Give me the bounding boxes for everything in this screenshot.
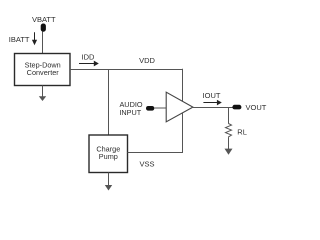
svg-text:VSS: VSS [139, 159, 154, 168]
svg-text:VBATT: VBATT [32, 15, 56, 24]
label charge pump [96, 145, 120, 162]
arrow IOUT current [203, 100, 221, 106]
svg-text:IBATT: IBATT [9, 35, 30, 44]
ground step-down converter [39, 86, 46, 102]
label step-down converter [25, 60, 61, 77]
wire audio input to amplifier [154, 107, 166, 109]
node VOUT terminal [232, 105, 241, 110]
node VBATT terminal [41, 24, 46, 32]
ground charge pump [105, 173, 112, 191]
wire VDD to charge pump [108, 70, 110, 136]
wire VDD down to amplifier [182, 69, 184, 102]
wire VSS up to amplifier [182, 113, 184, 153]
block step-down converter U1 [15, 54, 71, 86]
svg-text:RL: RL [237, 127, 247, 136]
svg-text:VDD: VDD [139, 56, 155, 65]
wire amplifier output [193, 107, 233, 109]
ground RL [225, 137, 233, 154]
label AUDIO INPUT [119, 100, 143, 117]
wire VSS horizontal [128, 152, 183, 154]
arrow IBATT current [32, 32, 37, 45]
node audio input terminal [146, 106, 154, 111]
wire VDD horizontal rail [70, 69, 183, 71]
op-amp amplifier U3 [166, 92, 193, 122]
svg-text:INPUT: INPUT [119, 108, 141, 117]
svg-text:Converter: Converter [27, 68, 60, 77]
svg-text:IOUT: IOUT [203, 91, 221, 100]
svg-text:IDD: IDD [82, 52, 96, 61]
wire VBATT to step-down converter [42, 32, 44, 54]
wire output to resistor RL [228, 108, 230, 124]
resistor RL [226, 124, 232, 138]
svg-text:Pump: Pump [99, 152, 118, 161]
block charge pump U2 [89, 135, 128, 173]
arrow IDD current [79, 61, 99, 67]
svg-text:VOUT: VOUT [246, 103, 267, 112]
